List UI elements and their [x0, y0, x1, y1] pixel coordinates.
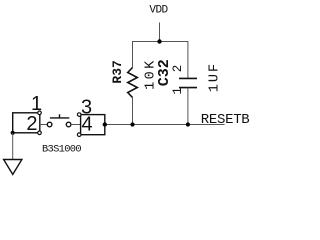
switch pin 1 open circle [38, 111, 42, 115]
svg-text:1: 1 [171, 87, 185, 95]
svg-text:R37: R37 [110, 60, 125, 83]
wire resistor bottom lead [132, 98, 134, 125]
switch contact circle left [47, 122, 52, 127]
svg-text:1UF: 1UF [208, 62, 223, 92]
switch pin 4 open circle [77, 133, 81, 137]
wire capacitor bottom lead [187, 88, 189, 125]
svg-text:4: 4 [82, 113, 93, 135]
switch actuator bar [50, 114, 69, 118]
node junction capacitor-bottom [186, 122, 190, 126]
switch contact circle right [66, 122, 71, 127]
wire ground lead [12, 133, 14, 160]
switch SW1 left body box (pins 1-2) [13, 113, 40, 133]
switch pin 2 open circle [38, 131, 42, 135]
wire VDD stub [159, 23, 161, 42]
wire contact to right box [71, 124, 81, 126]
wire bottom horizontal RESETB net [105, 124, 225, 126]
wire left box to contact [40, 124, 47, 126]
svg-text:RESETB: RESETB [201, 112, 250, 128]
svg-text:B3S1000: B3S1000 [42, 144, 81, 156]
resistor R37 [128, 68, 138, 98]
svg-text:2: 2 [171, 65, 185, 73]
wire top horizontal [133, 42, 188, 79]
switch SW1 right body box (pins 3-4) [81, 115, 105, 135]
svg-text:1: 1 [31, 93, 42, 115]
node junction pin4 to net [103, 122, 107, 126]
node junction top [157, 39, 161, 43]
capacitor C32 [179, 78, 197, 87]
switch pin 3 open circle [77, 113, 81, 117]
ground symbol [4, 160, 22, 175]
node junction resistor-bottom [130, 122, 134, 126]
svg-text:2: 2 [26, 113, 37, 135]
svg-text:VDD: VDD [149, 5, 168, 17]
node junction ground tap [11, 131, 15, 135]
